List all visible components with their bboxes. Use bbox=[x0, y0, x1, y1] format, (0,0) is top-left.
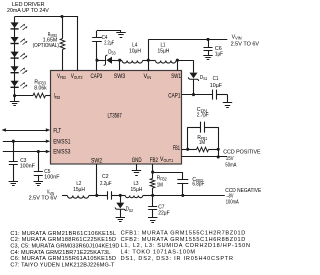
svg-text:1M: 1M bbox=[199, 140, 205, 146]
svg-text:DS3: DS3 bbox=[108, 49, 116, 55]
inductor L3 15uH bbox=[120, 181, 152, 198]
diode DS3 schottky bbox=[97, 49, 120, 65]
wire FB1 pin bbox=[182, 149, 190, 151]
LED D4 bbox=[11, 66, 28, 74]
resistor RVFB3 1.65M (optional) bbox=[33, 17, 65, 71]
node right bar / VOUT1 bbox=[217, 155, 220, 158]
value list right column bbox=[121, 231, 250, 263]
node VIN/L4/L1 bbox=[147, 59, 150, 62]
svg-text:C4: MURATA GRM21BR71E225KA73L: C4: MURATA GRM21BR71E225KA73L bbox=[10, 250, 110, 256]
wire SW3 pin bbox=[119, 60, 121, 70]
wire VVIN rail bbox=[148, 39, 227, 41]
svg-text:1µF: 1µF bbox=[215, 51, 223, 57]
value list left column bbox=[10, 231, 119, 268]
label CCD POSITIVE 15V 50mA bbox=[223, 149, 261, 168]
svg-text:SW1: SW1 bbox=[171, 74, 181, 80]
svg-text:50mA: 50mA bbox=[225, 163, 236, 169]
svg-text:LED DRIVER: LED DRIVER bbox=[12, 2, 45, 8]
svg-text:LT3587: LT3587 bbox=[108, 113, 123, 120]
pin IFB3 bbox=[54, 94, 61, 100]
wire EN/SS3 line bbox=[3, 150, 50, 153]
LED D3 bbox=[11, 52, 28, 60]
wire VIN feed bbox=[62, 195, 67, 197]
pin FB1 bbox=[173, 146, 181, 152]
ground DS2 bbox=[116, 218, 125, 222]
svg-text:15µH: 15µH bbox=[73, 187, 85, 193]
svg-text:L2: L2 bbox=[76, 181, 81, 187]
ground C4 bbox=[116, 31, 125, 38]
wire VOUT3 top rail bbox=[15, 16, 78, 18]
pin VIN bbox=[144, 74, 152, 80]
diode DS1 schottky bbox=[188, 73, 207, 95]
resistor RFB2 1M bbox=[150, 164, 167, 195]
inductor L2 15uH bbox=[67, 181, 96, 198]
svg-text:CAP3: CAP3 bbox=[91, 74, 103, 80]
node EN/SS3 / C5 bbox=[37, 150, 40, 153]
svg-text:2.7pF: 2.7pF bbox=[197, 113, 209, 119]
node C2/DS2/L3 bbox=[119, 194, 122, 197]
inductor L1 15uH bbox=[148, 43, 177, 64]
svg-text:(OPTIONAL): (OPTIONAL) bbox=[33, 43, 59, 49]
wire EN/SS1 line bbox=[3, 140, 50, 143]
pin CAP1 bbox=[168, 93, 181, 99]
node FB1 left bbox=[186, 148, 189, 151]
node EN/SS1 / C3 bbox=[12, 140, 15, 143]
node CFB2/output bbox=[181, 194, 184, 197]
svg-text:FB2: FB2 bbox=[150, 158, 159, 164]
node C6 junction bbox=[206, 38, 209, 41]
node CAP3/C4/DS3 bbox=[95, 59, 98, 62]
capacitor C1 10uF bbox=[210, 76, 228, 103]
svg-text:CFB1: MURATA GRM1555C1H2R7BZ01: CFB1: MURATA GRM1555C1H2R7BZ01D bbox=[121, 231, 246, 237]
svg-text:L3: L3 bbox=[134, 181, 139, 187]
LED D1 bbox=[11, 22, 28, 30]
pin SW2 bbox=[91, 158, 103, 164]
svg-text:C1: C1 bbox=[213, 76, 219, 82]
ground GND pin bbox=[132, 171, 141, 176]
ground C1 bbox=[223, 103, 232, 108]
svg-text:C1: MURATA GRM21BR61C106KE15L: C1: MURATA GRM21BR61C106KE15L bbox=[10, 231, 116, 237]
label LED DRIVER bbox=[7, 2, 49, 14]
pin FB2 bbox=[150, 158, 159, 164]
node SW3/L4 junction bbox=[118, 59, 121, 62]
capacitor C4 2.2uF bbox=[92, 31, 121, 61]
wire FB1 network left bar bbox=[187, 127, 189, 149]
svg-text:VFB3: VFB3 bbox=[57, 74, 66, 80]
svg-text:6.8pF: 6.8pF bbox=[192, 182, 204, 188]
svg-text:100nF: 100nF bbox=[44, 175, 60, 181]
node FB2/CFB2 branch bbox=[151, 171, 154, 174]
pin EN/SS1 bbox=[53, 139, 71, 145]
svg-text:–8V: –8V bbox=[227, 194, 234, 200]
svg-text:1M: 1M bbox=[157, 183, 163, 189]
ground C5 bbox=[34, 182, 43, 186]
svg-text:SW2: SW2 bbox=[91, 158, 103, 164]
svg-text:DS1, DS2, DS3: IR IR05H40CSPTR: DS1, DS2, DS3: IR IR05H40CSPTR bbox=[121, 256, 233, 262]
svg-text:20mA UP TO 24V: 20mA UP TO 24V bbox=[7, 8, 49, 14]
wire VOUT3 pin bbox=[77, 16, 79, 71]
svg-text:VOUT1: VOUT1 bbox=[160, 157, 174, 163]
capacitor C2 2.2uF bbox=[97, 174, 121, 200]
svg-text:10µF: 10µF bbox=[210, 83, 223, 89]
wire CCD negative output bbox=[153, 195, 225, 197]
inductor L4 10uH bbox=[120, 43, 149, 64]
ground LED chain bbox=[10, 96, 19, 106]
pin VOUT3 bbox=[71, 74, 83, 80]
svg-text:15V: 15V bbox=[226, 156, 234, 162]
svg-text:DS2: DS2 bbox=[126, 207, 134, 213]
svg-text:15µH: 15µH bbox=[158, 48, 170, 54]
node rail/RVFB3 junction bbox=[60, 15, 63, 18]
label CCD NEGATIVE -8V 100mA bbox=[225, 188, 261, 206]
svg-text:2.5V TO 6V: 2.5V TO 6V bbox=[29, 196, 58, 202]
svg-text:CAP1: CAP1 bbox=[168, 93, 181, 99]
capacitor C7 22uF bbox=[148, 195, 170, 217]
IC U1 LT3587 bbox=[51, 71, 182, 165]
svg-text:L4: TOKO 1071AS-100M: L4: TOKO 1071AS-100M bbox=[121, 250, 196, 256]
pin VOUT1 (bottom right) bbox=[160, 157, 174, 163]
svg-text:C3, C5: MURATA GRM033R60J104KE: C3, C5: MURATA GRM033R60J104KE19D bbox=[10, 244, 119, 250]
capacitor C6 1uF bbox=[204, 39, 224, 57]
pin VFB3 bbox=[57, 74, 66, 80]
svg-text:C7: C7 bbox=[158, 205, 164, 211]
wire SW2 pin bbox=[96, 164, 98, 195]
diode DS2 schottky bbox=[115, 195, 133, 217]
svg-text:FLT: FLT bbox=[53, 129, 61, 135]
LED D2 bbox=[11, 37, 28, 45]
svg-text:L1, L2, L3: SUMIDA CDRH2D18/HP: L1, L2, L3: SUMIDA CDRH2D18/HP-150N bbox=[121, 243, 250, 249]
pin GND bbox=[132, 158, 142, 164]
svg-text:VIN: VIN bbox=[144, 74, 152, 80]
wire SW1 to DS1 bbox=[177, 60, 193, 72]
wire CAP1 pin bbox=[182, 94, 213, 96]
label VVIN 2.5V TO 6V (bottom) bbox=[29, 190, 58, 202]
wire VOUT1 output bbox=[182, 156, 228, 158]
LED D5 bbox=[11, 81, 28, 89]
svg-text:2.2µF: 2.2µF bbox=[104, 40, 114, 46]
pin CAP3 bbox=[91, 74, 103, 80]
svg-text:EN/SS1: EN/SS1 bbox=[53, 139, 71, 145]
svg-text:15µH: 15µH bbox=[131, 187, 143, 193]
capacitor C3 100nF bbox=[9, 141, 36, 181]
resistor RIFB3 8.06k bbox=[15, 80, 51, 98]
svg-text:8.06k: 8.06k bbox=[34, 85, 47, 91]
ground C7 bbox=[148, 218, 157, 223]
pin SW3 bbox=[114, 74, 126, 80]
resistor RFB1 1M bbox=[188, 135, 219, 152]
svg-text:2.5V TO 6V: 2.5V TO 6V bbox=[231, 41, 260, 47]
svg-text:EN/SS3: EN/SS3 bbox=[53, 150, 71, 156]
pin FLT bbox=[53, 129, 61, 135]
wire GND pin bbox=[136, 164, 138, 171]
node SW2/L2/C2 bbox=[95, 194, 98, 197]
ground C6 bbox=[203, 56, 212, 60]
svg-text:CCD POSITIVE: CCD POSITIVE bbox=[223, 149, 261, 155]
svg-text:2.2µF: 2.2µF bbox=[100, 181, 112, 187]
svg-text:DS1: DS1 bbox=[200, 75, 208, 81]
svg-text:C6: MURATA GRM155R61A105KE15D: C6: MURATA GRM155R61A105KE15D bbox=[10, 256, 116, 262]
label VVIN 2.5V TO 6V bbox=[231, 35, 260, 48]
node LED/RIFB3 junction bbox=[13, 94, 16, 97]
wire CAP3 node bbox=[96, 60, 98, 70]
svg-text:22µF: 22µF bbox=[158, 211, 170, 217]
svg-text:FB1: FB1 bbox=[173, 146, 181, 152]
svg-text:C7: TAIYO YUDEN LMK212BJ226MG-: C7: TAIYO YUDEN LMK212BJ226MG-T bbox=[10, 262, 115, 268]
capacitor C5 100nF bbox=[34, 152, 60, 182]
wire FLT line bbox=[2, 128, 51, 131]
svg-text:VVIN: VVIN bbox=[232, 35, 242, 41]
capacitor CFB1 2.7pF bbox=[188, 107, 219, 132]
svg-text:GND: GND bbox=[132, 158, 142, 164]
svg-text:SW3: SW3 bbox=[114, 74, 126, 80]
svg-text:CFB2: MURATA GRM1555C1H6R8BZ01: CFB2: MURATA GRM1555C1H6R8BZ01D bbox=[121, 237, 246, 243]
svg-text:C2: MURATA GRM188R61C225KE15D: C2: MURATA GRM188R61C225KE15D bbox=[10, 237, 116, 243]
node SW1/L1/DS1 bbox=[176, 59, 179, 62]
pin SW1 bbox=[171, 74, 181, 80]
svg-text:100mA: 100mA bbox=[226, 200, 239, 206]
wire FB1 network right bar bbox=[218, 127, 220, 157]
svg-text:100nF: 100nF bbox=[20, 163, 36, 169]
capacitor CFB2 6.8pF bbox=[153, 172, 205, 195]
svg-text:C2: C2 bbox=[102, 174, 109, 180]
wire LED chain bbox=[14, 17, 16, 96]
wire SW1 pin bbox=[177, 60, 179, 70]
svg-text:10µH: 10µH bbox=[129, 48, 141, 54]
svg-text:RFB2: RFB2 bbox=[157, 176, 168, 182]
node DS1/CAP1 bbox=[192, 93, 195, 96]
svg-text:IFB3: IFB3 bbox=[54, 94, 61, 100]
ground C3 bbox=[9, 182, 18, 186]
node right bar / RFB1 bbox=[217, 148, 220, 151]
svg-text:VOUT3: VOUT3 bbox=[71, 74, 83, 80]
pin EN/SS3 bbox=[53, 150, 71, 156]
wire VIN pin bbox=[148, 39, 150, 70]
node L3/RFB2/C7/out bbox=[151, 194, 154, 197]
